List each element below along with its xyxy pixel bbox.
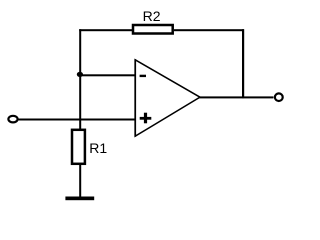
wire: top feedback, left segment [79,29,133,31]
ground [65,197,94,201]
wire: top feedback, right segment [174,29,244,31]
wire: right vertical (output to feedback) [242,29,244,98]
svg-text:R1: R1 [89,140,107,156]
wire: left vertical (node to R1) [79,29,81,130]
wire: inverting input [80,74,135,76]
op-amp minus sign [140,75,146,77]
wire: output [200,96,274,98]
output terminal circle [275,93,283,101]
op-amp left edge [134,59,136,136]
wire: input to non-inverting input [19,119,136,121]
svg-text:R2: R2 [143,8,161,24]
junction dot at inverting node [77,72,83,77]
wire: R1 to ground [79,163,81,197]
resistor R2 [133,25,173,34]
resistor R1 [72,130,85,164]
op-amp U1 triangle [135,60,200,136]
input terminal circle [8,116,17,123]
op-amp plus sign [140,113,152,124]
